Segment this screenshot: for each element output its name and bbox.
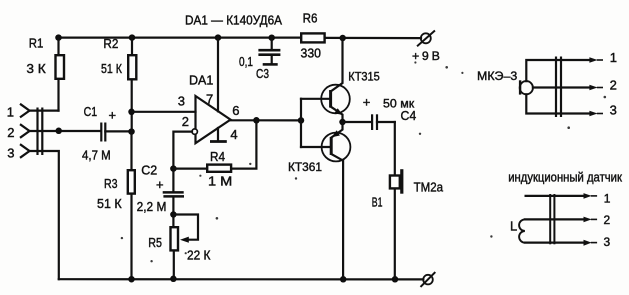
svg-text:L: L [510, 218, 517, 233]
potentiometer R5 [171, 215, 179, 280]
svg-text:R5: R5 [148, 235, 162, 250]
svg-text:С1: С1 [84, 104, 98, 119]
resistor R6 [301, 33, 324, 42]
wire emitter junction to C4 [343, 121, 372, 123]
svg-text:0,1: 0,1 [239, 54, 253, 69]
wire pin2 to C2 column [173, 132, 192, 169]
sensor connector double bars [549, 194, 551, 244]
svg-text:51 К: 51 К [97, 196, 122, 211]
pin 3 arrow [20, 144, 30, 158]
wire bottom ground rail [59, 278, 424, 280]
wire C1 to node A [105, 130, 131, 132]
node R2 bottom / pin3 wire junction [128, 109, 135, 116]
svg-text:330: 330 [301, 45, 322, 60]
svg-text:4,7 М: 4,7 М [82, 148, 111, 163]
node top rail R1 junction [55, 34, 62, 41]
ground bar under C3 [263, 63, 278, 66]
node C2/R5 wiper junction [170, 211, 177, 218]
node ground rail KT361 junction [340, 276, 347, 283]
inductor L coil [519, 219, 525, 242]
induction sensor pinout diagram [519, 193, 596, 246]
resistor R1 [56, 38, 65, 111]
arrowhead sensor pin2 [584, 217, 592, 223]
mic connector double bars [555, 57, 557, 118]
wire C2 bottom lead [172, 198, 174, 215]
wire pin3 row down to ground rail [30, 151, 59, 279]
svg-text:3: 3 [604, 235, 611, 249]
svg-text:ТМ2а: ТМ2а [414, 179, 444, 194]
wire mic pin2 [533, 86, 590, 88]
terminal ground [421, 273, 434, 286]
svg-text:R2: R2 [103, 36, 118, 51]
transistor Q2 KT361 [301, 122, 350, 279]
wire down to B1 [394, 122, 396, 174]
svg-text:DA1: DA1 [189, 72, 213, 87]
node A C1/R2/R3 junction [128, 128, 135, 135]
svg-text:3 К: 3 К [26, 61, 46, 76]
op-amp U1 DA1 triangle [196, 96, 231, 143]
node top rail pin7 junction [215, 34, 222, 41]
svg-text:+: + [156, 177, 164, 192]
wire op-amp output [231, 119, 302, 121]
node ground rail B1 junction [392, 276, 399, 283]
wire node to op-amp pin3 [132, 111, 196, 113]
svg-text:2: 2 [182, 114, 189, 129]
svg-text:R1: R1 [29, 35, 44, 50]
wire mic pin1 [526, 60, 590, 81]
svg-text:DA1 — К140УД6А: DA1 — К140УД6А [185, 13, 282, 28]
svg-text:+: + [109, 108, 117, 123]
mic capsule circle [520, 81, 533, 94]
mic membrane bar [519, 80, 521, 94]
wire sensor pin2 [525, 218, 584, 220]
node output/base junction [298, 117, 305, 124]
pin 2 arrow [20, 124, 30, 138]
svg-text:R4: R4 [210, 149, 225, 164]
capacitor C1 [101, 123, 105, 142]
capacitor C2 [163, 192, 184, 196]
svg-text:+: + [363, 94, 371, 109]
svg-text:В1: В1 [372, 194, 383, 209]
capacitor C4 [372, 114, 377, 130]
op-amp pin7 power lead [217, 38, 219, 112]
capacitor C3 [258, 38, 280, 65]
svg-text:КТ315: КТ315 [348, 70, 380, 84]
node pin2 row dot [55, 128, 62, 135]
ground bar under pin4 [210, 140, 227, 143]
resistor R2 [128, 38, 136, 132]
svg-text:R6: R6 [303, 11, 318, 26]
svg-text:2: 2 [610, 77, 617, 92]
transistor Q1 KT315 [301, 38, 350, 122]
svg-text:1: 1 [7, 105, 14, 120]
scan noise specks [121, 61, 606, 262]
svg-text:С3: С3 [256, 66, 269, 81]
node output/R4 junction [253, 117, 260, 124]
svg-text:9: 9 [422, 49, 429, 63]
svg-text:В: В [432, 49, 440, 63]
connector X1 double bars [38, 108, 43, 156]
op-amp pin4 lead [217, 128, 219, 140]
node top rail R2 junction [129, 34, 136, 41]
svg-text:+: + [412, 49, 419, 63]
microphone MKE-3 pinout diagram [520, 57, 603, 118]
svg-text:6: 6 [232, 103, 239, 118]
svg-text:3: 3 [7, 146, 14, 161]
arrowhead pin3 [589, 111, 597, 117]
svg-text:1: 1 [610, 50, 617, 65]
svg-text:22 К: 22 К [187, 247, 211, 262]
svg-text:1: 1 [604, 191, 611, 205]
arrowhead pin1 [589, 57, 597, 63]
node ground rail R5 junction [170, 276, 177, 283]
R5 wiper arm [173, 215, 198, 243]
wire C2 top lead [172, 169, 174, 192]
arrowhead sensor pin3 [584, 240, 592, 246]
wire sensor pin3 [525, 242, 584, 244]
node top rail KT315 collector junction [339, 35, 346, 42]
pin 1 arrow [20, 104, 30, 118]
terminal +9V [418, 31, 434, 45]
wire top supply rail left [59, 36, 301, 38]
svg-text:51 К: 51 К [101, 61, 122, 76]
wire pin1 row [30, 109, 59, 111]
svg-text:4: 4 [230, 127, 237, 142]
headphone B1 TM2a [390, 169, 402, 279]
svg-text:R3: R3 [104, 176, 118, 191]
svg-text:2: 2 [7, 125, 14, 140]
wire base column of transistor pair [300, 99, 302, 147]
svg-text:МКЭ–3: МКЭ–3 [477, 69, 517, 83]
resistor R4 feedback [173, 120, 256, 172]
svg-text:С4: С4 [401, 108, 417, 123]
wire C4 to bend [377, 121, 395, 123]
arrowhead sensor pin1 [584, 193, 592, 199]
svg-text:С2: С2 [141, 162, 157, 177]
svg-text:2,2 М: 2,2 М [137, 199, 167, 214]
svg-text:3: 3 [610, 103, 617, 118]
svg-text:7: 7 [206, 92, 213, 107]
node emitter junction [339, 119, 346, 126]
svg-text:КТ361: КТ361 [288, 160, 322, 174]
wire top supply rail right of R6 [326, 37, 421, 39]
arrowhead pin2 [589, 85, 597, 91]
node top rail C3 junction [268, 34, 275, 41]
wire pin2 row to C1 [30, 130, 101, 132]
resistor R3 [128, 131, 135, 279]
connector X1 pin arrows [20, 104, 30, 158]
svg-text:2: 2 [604, 213, 611, 227]
op-amp pin2 inverting bubble [192, 129, 197, 134]
svg-text:3: 3 [178, 94, 185, 109]
wire mic pin3 [526, 94, 590, 113]
svg-text:1 М: 1 М [208, 174, 232, 189]
svg-text:индукционный датчик: индукционный датчик [508, 171, 622, 185]
wire sensor pin1 [526, 195, 585, 197]
node C2/R4 junction [170, 165, 177, 172]
node ground rail R3 junction [128, 276, 135, 283]
